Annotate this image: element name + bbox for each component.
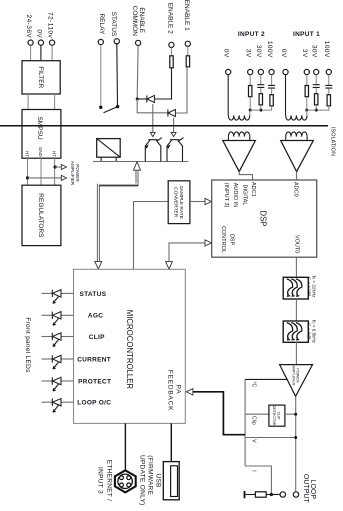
terminal loop output b <box>293 492 298 497</box>
svg-text:INPUT 2: INPUT 2 <box>238 31 265 38</box>
capacitor input1 100V <box>325 85 332 88</box>
shunt resistor <box>255 492 266 497</box>
node input1 summing <box>305 109 308 112</box>
svg-text:72-110v: 72-110v <box>47 12 54 38</box>
power amplifier U2 <box>280 365 313 397</box>
wire LED1 to enable2 resistor <box>154 68 171 99</box>
transformer input1 secondary <box>286 132 307 137</box>
svg-text:DIGITAL: DIGITAL <box>241 185 247 206</box>
svg-text:HT: HT <box>25 151 30 157</box>
svg-text:G = 0dB: G = 0dB <box>306 323 311 340</box>
wire terminals to filter <box>31 45 52 61</box>
svg-text:COMMON: COMMON <box>131 6 138 37</box>
svg-text:ENABLE 1: ENABLE 1 <box>183 0 190 31</box>
LED AGC <box>42 312 104 326</box>
light arrow opto1 <box>152 104 154 133</box>
svg-text:24-36V: 24-36V <box>25 15 32 39</box>
resistor input2 100V <box>270 95 273 106</box>
opto LED D1 <box>146 95 148 102</box>
converter block (diagonal box) <box>97 139 121 158</box>
wire F2 to power amp <box>295 342 297 364</box>
feedback rail <box>244 379 246 466</box>
LED CLIP <box>42 333 106 347</box>
terminal 0V power <box>38 40 43 45</box>
wire enable common to LED2 <box>137 99 168 113</box>
LED LOOP O/C <box>42 399 112 413</box>
svg-text:USB: USB <box>155 473 162 487</box>
relay contact switch <box>99 106 102 109</box>
bus rail to microcontroller (hollow) <box>98 170 137 262</box>
svg-text:SMPSU: SMPSU <box>36 116 43 139</box>
wire enable common down <box>136 46 139 99</box>
node HT tap upper <box>54 165 57 168</box>
svg-text:AMPLIFIER: AMPLIFIER <box>291 365 295 385</box>
svg-text:ADC0: ADC0 <box>292 182 298 197</box>
svg-text:G = +2dB: G = +2dB <box>306 277 311 297</box>
node HT tap lower <box>26 176 29 179</box>
wire input1 100V <box>328 75 330 85</box>
wire smpsu to regulators <box>28 158 55 185</box>
wire input2 100V <box>271 75 273 85</box>
resistor enable 1 <box>187 46 189 55</box>
svg-text:STATUS: STATUS <box>80 291 107 298</box>
svg-text:ISOLATION: ISOLATION <box>330 127 336 156</box>
svg-text:PA: PA <box>175 385 182 395</box>
svg-text:RELAY: RELAY <box>98 13 105 34</box>
block REGULATORS <box>22 185 61 245</box>
svg-text:VOUT0: VOUT0 <box>294 235 300 253</box>
node enable common <box>136 98 139 101</box>
wire A1 to ADC0 <box>296 172 298 180</box>
terminal ENABLE COMMON <box>136 40 141 45</box>
block DSP <box>212 180 317 257</box>
isolation barrier <box>0 125 328 127</box>
svg-text:Clip: Clip <box>250 416 256 425</box>
buffer amp A2 <box>223 141 256 172</box>
wire micro to sample rate converter <box>134 202 169 270</box>
terminal 24-36V <box>28 40 33 45</box>
block CLIP DETECTOR <box>269 405 285 426</box>
svg-text:3V: 3V <box>301 49 308 58</box>
terminal input1 3V <box>304 69 309 74</box>
wire micro to DSP control <box>166 262 173 270</box>
feedback tap temperature <box>245 378 288 380</box>
wire micro to ethernet <box>124 423 126 470</box>
feedback tap clip <box>245 413 269 415</box>
svg-text:FILTER: FILTER <box>37 66 44 88</box>
block MICROCONTROLLER <box>74 269 186 423</box>
block SMPSU <box>22 110 61 159</box>
svg-text:CONTROL: CONTROL <box>220 226 226 253</box>
wire relay a <box>100 45 102 106</box>
svg-text:°C: °C <box>250 382 256 388</box>
terminal input2 0V <box>226 69 231 74</box>
capacitor input2 30V <box>257 85 264 88</box>
wire input1 30V <box>315 75 317 85</box>
opto LED D2 <box>167 109 169 116</box>
transformer input2 primary <box>227 75 229 116</box>
svg-text:AUDIO IN: AUDIO IN <box>232 183 238 207</box>
svg-text:Front panel LEDs: Front panel LEDs <box>24 317 31 373</box>
svg-text:HT: HT <box>52 151 57 157</box>
PA feedback wire <box>193 392 246 435</box>
svg-text:MICROCONTROLLER: MICROCONTROLLER <box>125 310 134 390</box>
wire A2 to ADC1 <box>239 172 252 180</box>
block FILTER <box>22 61 60 94</box>
wire HT tap upper <box>55 166 61 168</box>
svg-text:ENABLE: ENABLE <box>138 7 145 33</box>
transformer input2 secondary <box>228 132 249 137</box>
wire input2 30V <box>260 75 262 85</box>
svg-text:UPDATE ONLY): UPDATE ONLY) <box>139 455 146 506</box>
capacitor input2 100V <box>268 85 275 88</box>
svg-text:OUTPUT: OUTPUT <box>302 474 309 504</box>
current sense end bar <box>244 491 246 498</box>
svg-text:DSP: DSP <box>229 234 235 246</box>
svg-text:ENABLE 2: ENABLE 2 <box>166 3 173 34</box>
LED PROTECT <box>42 377 112 391</box>
svg-text:100V: 100V <box>266 41 273 58</box>
LED STATUS <box>42 290 107 304</box>
svg-text:ADC1: ADC1 <box>250 182 256 197</box>
svg-text:SAMPLE RATE: SAMPLE RATE <box>178 186 184 219</box>
terminal input1 100V <box>326 69 331 74</box>
svg-text:0V: 0V <box>280 49 287 58</box>
svg-text:CLIP: CLIP <box>89 334 105 341</box>
ethernet connector J1 <box>115 470 136 492</box>
svg-text:FEEDBACK: FEEDBACK <box>166 370 173 411</box>
svg-text:LOOP O/C: LOOP O/C <box>77 400 111 407</box>
wire F1 to F2 <box>295 299 297 321</box>
buffer amp A1 <box>281 141 314 172</box>
terminal input2 30V <box>258 69 263 74</box>
LED CURRENT <box>42 355 112 369</box>
wire node to opto LED1 <box>137 98 147 100</box>
svg-text:(FIRMWARE: (FIRMWARE <box>147 455 154 495</box>
resistor enable 2 <box>170 48 172 56</box>
resistor input1 100V <box>327 95 330 106</box>
svg-text:I: I <box>250 470 256 471</box>
svg-text:(INPUT 3): (INPUT 3) <box>223 183 229 208</box>
wire filter to smpsu <box>28 94 54 110</box>
opto transistor Q1 <box>145 138 162 162</box>
svg-text:3V: 3V <box>245 49 252 58</box>
terminal input2 3V <box>248 69 253 74</box>
svg-text:0V: 0V <box>223 49 230 58</box>
arrow supply to power amplifier upper <box>61 165 66 170</box>
node input2 summing <box>249 109 252 112</box>
wire amp output to loop terminal <box>295 396 297 492</box>
svg-text:INPUT 1: INPUT 1 <box>293 31 320 38</box>
wire bar to shunt <box>245 494 255 496</box>
terminal input1 30V <box>314 69 319 74</box>
transformer input1 primary <box>285 75 287 116</box>
resistor input1 30V <box>315 94 318 105</box>
wire clip detector to output <box>285 413 296 415</box>
terminal 72-110v <box>50 40 55 45</box>
wire LED2 to enable1 resistor <box>175 67 187 113</box>
filter F2 fc=6.5kHz <box>283 321 308 342</box>
svg-text:30V: 30V <box>311 45 318 58</box>
USB connector J2 <box>163 462 179 500</box>
feedback tap I <box>245 466 271 495</box>
svg-text:REGULATORS: REGULATORS <box>37 193 44 238</box>
svg-text:PROTECT: PROTECT <box>78 378 111 385</box>
wire micro to USB <box>170 423 172 461</box>
wire relay b <box>116 44 119 106</box>
svg-text:INPUT 3: INPUT 3 <box>96 467 103 494</box>
terminal loop output a <box>280 492 285 497</box>
wire SRC to DSP <box>190 201 206 203</box>
svg-text:GND: GND <box>38 147 43 157</box>
resistor input2 3V <box>249 86 252 97</box>
svg-text:AMPLIFIER: AMPLIFIER <box>70 161 75 186</box>
arrow down into microcontroller <box>95 261 102 269</box>
capacitor input1 30V <box>313 85 320 88</box>
terminal input1 0V <box>283 69 288 74</box>
wire HT tap lower <box>28 177 62 179</box>
resistor input2 30V <box>259 94 262 105</box>
svg-text:100V: 100V <box>323 41 330 58</box>
svg-text:0V: 0V <box>35 29 42 38</box>
wire shunt to terminal <box>266 494 280 496</box>
svg-text:STATUS: STATUS <box>110 12 117 37</box>
wire input2 3V <box>249 75 251 86</box>
terminal status relay b <box>114 39 119 44</box>
svg-text:CONVERTER: CONVERTER <box>173 187 179 218</box>
arrow up at rail <box>134 162 141 171</box>
svg-text:DSP: DSP <box>259 210 268 226</box>
opto transistor Q2 <box>167 138 184 162</box>
svg-text:DETECTOR: DETECTOR <box>272 406 276 426</box>
wire input1 3V <box>306 75 308 86</box>
filter F1 fc=22kHz <box>283 277 308 299</box>
svg-text:ETHERNET /: ETHERNET / <box>105 460 112 502</box>
wire VOUT0 to F1 <box>295 257 297 277</box>
block SAMPLE RATE CONVERTER <box>168 181 190 224</box>
terminal input2 100V <box>269 69 274 74</box>
svg-text:30V: 30V <box>255 45 262 58</box>
arrow supply to power amplifier lower <box>61 175 66 180</box>
light arrow opto2 <box>173 118 175 133</box>
control rail <box>93 161 188 163</box>
resistor input1 3V <box>305 86 308 97</box>
svg-text:AGC: AGC <box>88 313 103 320</box>
feedback tap V <box>245 437 296 439</box>
terminal ENABLE 1 <box>185 41 190 46</box>
terminal status relay a <box>98 39 103 44</box>
svg-text:CURRENT: CURRENT <box>77 356 111 363</box>
terminal ENABLE 2 <box>169 42 174 47</box>
